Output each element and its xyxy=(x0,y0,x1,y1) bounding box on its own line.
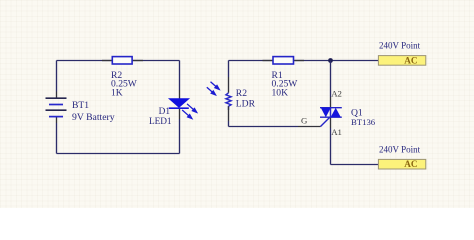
triac Q1 bottom bar xyxy=(320,116,342,118)
svg-text:D1: D1 xyxy=(159,107,171,117)
pin: LDR top pin xyxy=(228,77,230,93)
svg-text:10K: 10K xyxy=(272,87,289,98)
triac Q1 symbol vertical through-line xyxy=(330,108,332,118)
pin: LED cathode pin xyxy=(179,108,181,119)
port AC top rectangle xyxy=(378,56,425,66)
svg-text:G: G xyxy=(301,115,308,125)
svg-text:AC: AC xyxy=(404,56,417,66)
battery BT1 plate 3 (long) xyxy=(46,109,67,111)
svg-text:BT136: BT136 xyxy=(351,117,376,127)
svg-text:AC: AC xyxy=(404,159,417,169)
wire: G wire from LDR bottom toward triac xyxy=(229,126,299,128)
wire: LED cathode to bottom wire xyxy=(179,119,181,154)
LED D1 triangle (anode) xyxy=(169,99,188,107)
battery BT1 plate 2 (short) xyxy=(49,104,63,106)
pin: battery - pin xyxy=(56,117,58,123)
pin: triac A1 pin xyxy=(330,117,332,128)
battery BT1 plate 1 (long, top) xyxy=(46,97,67,99)
junction node at R1/triac/port xyxy=(328,58,333,63)
battery BT1 plate 4 (short, bottom) xyxy=(49,116,63,118)
wire: right loop top (LDR top to junction via R1) xyxy=(229,60,331,62)
pin: battery + pin xyxy=(56,92,58,99)
pin: triac gate pin G xyxy=(298,126,321,128)
pin: triac A2 pin xyxy=(330,97,332,108)
pin: R2 left pin xyxy=(102,60,113,62)
triac Q1 right triangle (points up) xyxy=(331,108,341,118)
svg-text:240V Point: 240V Point xyxy=(379,40,421,50)
photoresistor R2 LDR zigzag xyxy=(226,93,231,110)
wire: left loop bottom xyxy=(57,153,180,155)
LED D1 emission arrow upper xyxy=(187,104,197,113)
svg-text:A2: A2 xyxy=(331,89,342,99)
wire: triac A2 vertical from junction xyxy=(330,61,332,98)
wire: battery - to bottom wire xyxy=(56,123,58,154)
pin: R2 right pin xyxy=(132,60,143,62)
resistor R1 body xyxy=(273,57,294,64)
triac Q1 gate diagonal xyxy=(321,117,330,126)
LED D1 emission arrow lower xyxy=(182,110,192,119)
wire: A1 to bottom port xyxy=(331,164,379,166)
svg-text:BT1: BT1 xyxy=(72,100,89,111)
svg-text:R2: R2 xyxy=(236,88,247,99)
wire: triac A1 vertical down xyxy=(330,128,332,165)
pin: LED anode pin xyxy=(179,90,181,99)
LED D1 cathode bar xyxy=(169,107,189,109)
triac Q1 top bar xyxy=(320,107,342,109)
svg-text:LDR: LDR xyxy=(236,99,256,110)
svg-text:LED1: LED1 xyxy=(149,117,172,127)
pin: R1 right pin xyxy=(294,60,305,62)
svg-text:9V Battery: 9V Battery xyxy=(72,112,115,123)
svg-text:240V Point: 240V Point xyxy=(379,144,421,154)
triac Q1 left triangle (points down) xyxy=(321,108,331,118)
wire: LDR top vertical xyxy=(228,61,230,78)
LDR light arrow lower xyxy=(207,87,216,95)
pin: R1 left pin xyxy=(263,60,274,62)
wire: LED anode vertical xyxy=(179,61,181,91)
svg-text:1K: 1K xyxy=(111,87,123,98)
wire: junction to top port xyxy=(331,60,379,62)
LDR light arrow upper xyxy=(211,82,220,90)
svg-text:A1: A1 xyxy=(331,127,342,137)
pin: LDR bottom pin xyxy=(228,106,230,121)
wire: left loop left vertical (top to battery +) xyxy=(56,61,58,92)
port AC bottom rectangle xyxy=(378,159,425,169)
resistor R2 body xyxy=(112,57,132,64)
wire: LDR bottom vertical xyxy=(228,121,230,127)
wire: left loop top (battery+ to LED anode via R2) xyxy=(57,60,180,62)
